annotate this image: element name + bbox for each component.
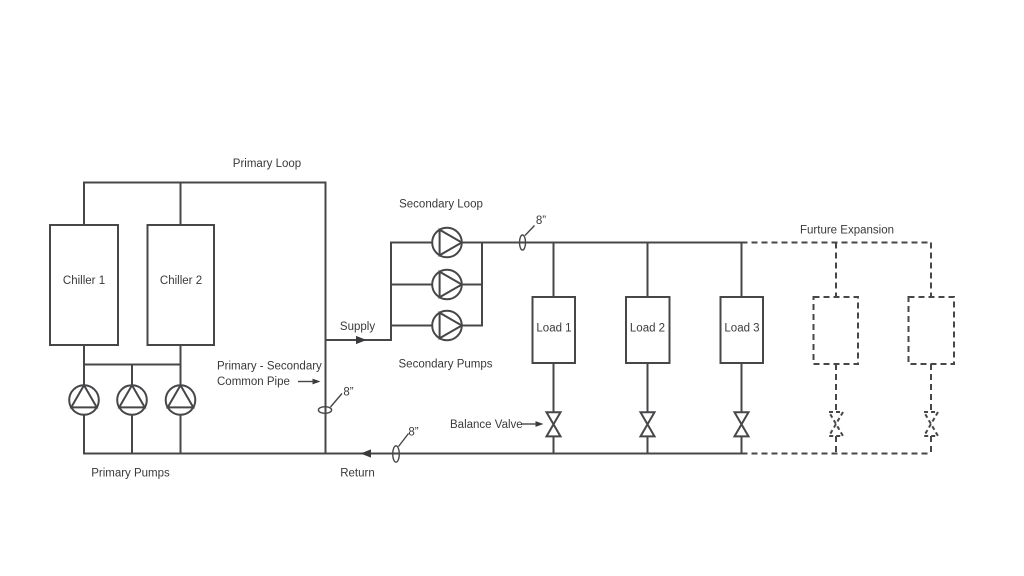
svg-text:Balance Valve: Balance Valve (450, 419, 523, 431)
wire chiller 2 supply riser (180, 183, 182, 226)
load future load 2 box (dashed) (909, 297, 955, 364)
wire load 3 return drop upper (741, 363, 743, 412)
wire load 1 supply drop (553, 243, 555, 298)
load Load 3 box (721, 297, 764, 363)
pump primary pump 1 (69, 385, 99, 415)
svg-text:Primary Loop: Primary Loop (233, 158, 301, 170)
valve balance valve 2 (641, 412, 655, 436)
svg-text:Chiller 1: Chiller 1 (63, 275, 105, 287)
wire future expansion return pipe (dashed) (742, 453, 932, 455)
wire future expansion supply header (dashed) (742, 242, 932, 244)
pump secondary pump 1 (432, 228, 462, 258)
wire future load 1 return drop lower (dashed) (835, 436, 837, 454)
load Load 1 box (533, 297, 576, 363)
wire secondary pump branch 3 (391, 325, 482, 327)
svg-text:Chiller 2: Chiller 2 (160, 275, 202, 287)
svg-text:8”: 8” (408, 427, 418, 439)
svg-text:Furture Expansion: Furture Expansion (800, 225, 894, 237)
wire chiller 2 return drop (180, 345, 182, 454)
svg-text:Load 2: Load 2 (630, 323, 665, 335)
wire chiller 1 supply riser (83, 183, 85, 226)
wire secondary pump branch 2 (391, 284, 482, 286)
wire future load 2 return drop lower (dashed) (930, 436, 932, 454)
wire future load 1 return drop upper (dashed) (835, 364, 837, 412)
chiller Chiller 2 box (148, 225, 215, 345)
arrow return flow direction (361, 449, 372, 457)
svg-text:Return: Return (340, 468, 375, 480)
wire secondary pump right manifold (481, 243, 483, 326)
wire future load 1 supply drop (dashed) (835, 243, 837, 298)
svg-text:8”: 8” (536, 215, 546, 227)
arrow balance valve label pointer line (521, 423, 537, 425)
wire load 2 supply drop (647, 243, 649, 298)
wire secondary pump branch 1 / supply header (391, 242, 742, 244)
svg-text:Common Pipe: Common Pipe (217, 376, 290, 388)
wire secondary pump left manifold (390, 243, 392, 341)
svg-text:8”: 8” (343, 387, 353, 399)
arrow supply flow direction (356, 336, 367, 344)
svg-text:Primary - Secondary: Primary - Secondary (217, 361, 322, 373)
arrow common pipe label pointer head (313, 379, 321, 385)
load future load 1 box (dashed) (814, 297, 859, 364)
svg-text:Secondary Loop: Secondary Loop (399, 199, 483, 211)
wire chiller 1 return drop (83, 345, 85, 454)
valve future balance valve 1 (dashed) (829, 412, 843, 436)
wire primary pump manifold (84, 364, 181, 366)
valve balance valve 1 (547, 412, 561, 436)
chiller Chiller 1 box (50, 225, 118, 345)
wire secondary supply branch (326, 339, 392, 341)
wire load 3 return drop lower (741, 436, 743, 453)
wire future load 2 supply drop (dashed) (930, 243, 932, 298)
wire bottom return pipe (84, 453, 742, 455)
wire load 1 return drop lower (553, 436, 555, 453)
pump primary pump 2 (117, 385, 147, 415)
pipe-break 8-inch marker on supply header (520, 226, 535, 251)
load Load 2 box (626, 297, 670, 363)
wire load 3 supply drop (741, 243, 743, 298)
wire load 1 return drop upper (553, 363, 555, 412)
valve future balance valve 2 (dashed) (924, 412, 938, 436)
wire primary loop top pipe (84, 182, 326, 184)
svg-text:Load 1: Load 1 (536, 323, 571, 335)
arrow balance valve label pointer head (536, 421, 544, 427)
wire load 2 return drop upper (647, 363, 649, 412)
wire future load 2 return drop upper (dashed) (930, 364, 932, 412)
arrow common pipe label pointer line (298, 381, 314, 383)
svg-text:Supply: Supply (340, 321, 375, 333)
pipe-break 8-inch marker on return pipe (393, 434, 409, 463)
wire pump 2 drop (131, 365, 133, 454)
pipe-break 8-inch marker on common pipe (318, 394, 342, 414)
pump secondary pump 2 (432, 270, 462, 300)
pump primary pump 3 (166, 385, 196, 415)
wire primary-secondary common pipe vertical (325, 183, 327, 454)
pump secondary pump 3 (432, 311, 462, 341)
svg-text:Secondary Pumps: Secondary Pumps (399, 359, 493, 371)
svg-text:Load 3: Load 3 (724, 323, 759, 335)
valve balance valve 3 (735, 412, 749, 436)
wire load 2 return drop lower (647, 436, 649, 453)
svg-text:Primary Pumps: Primary Pumps (91, 468, 170, 480)
